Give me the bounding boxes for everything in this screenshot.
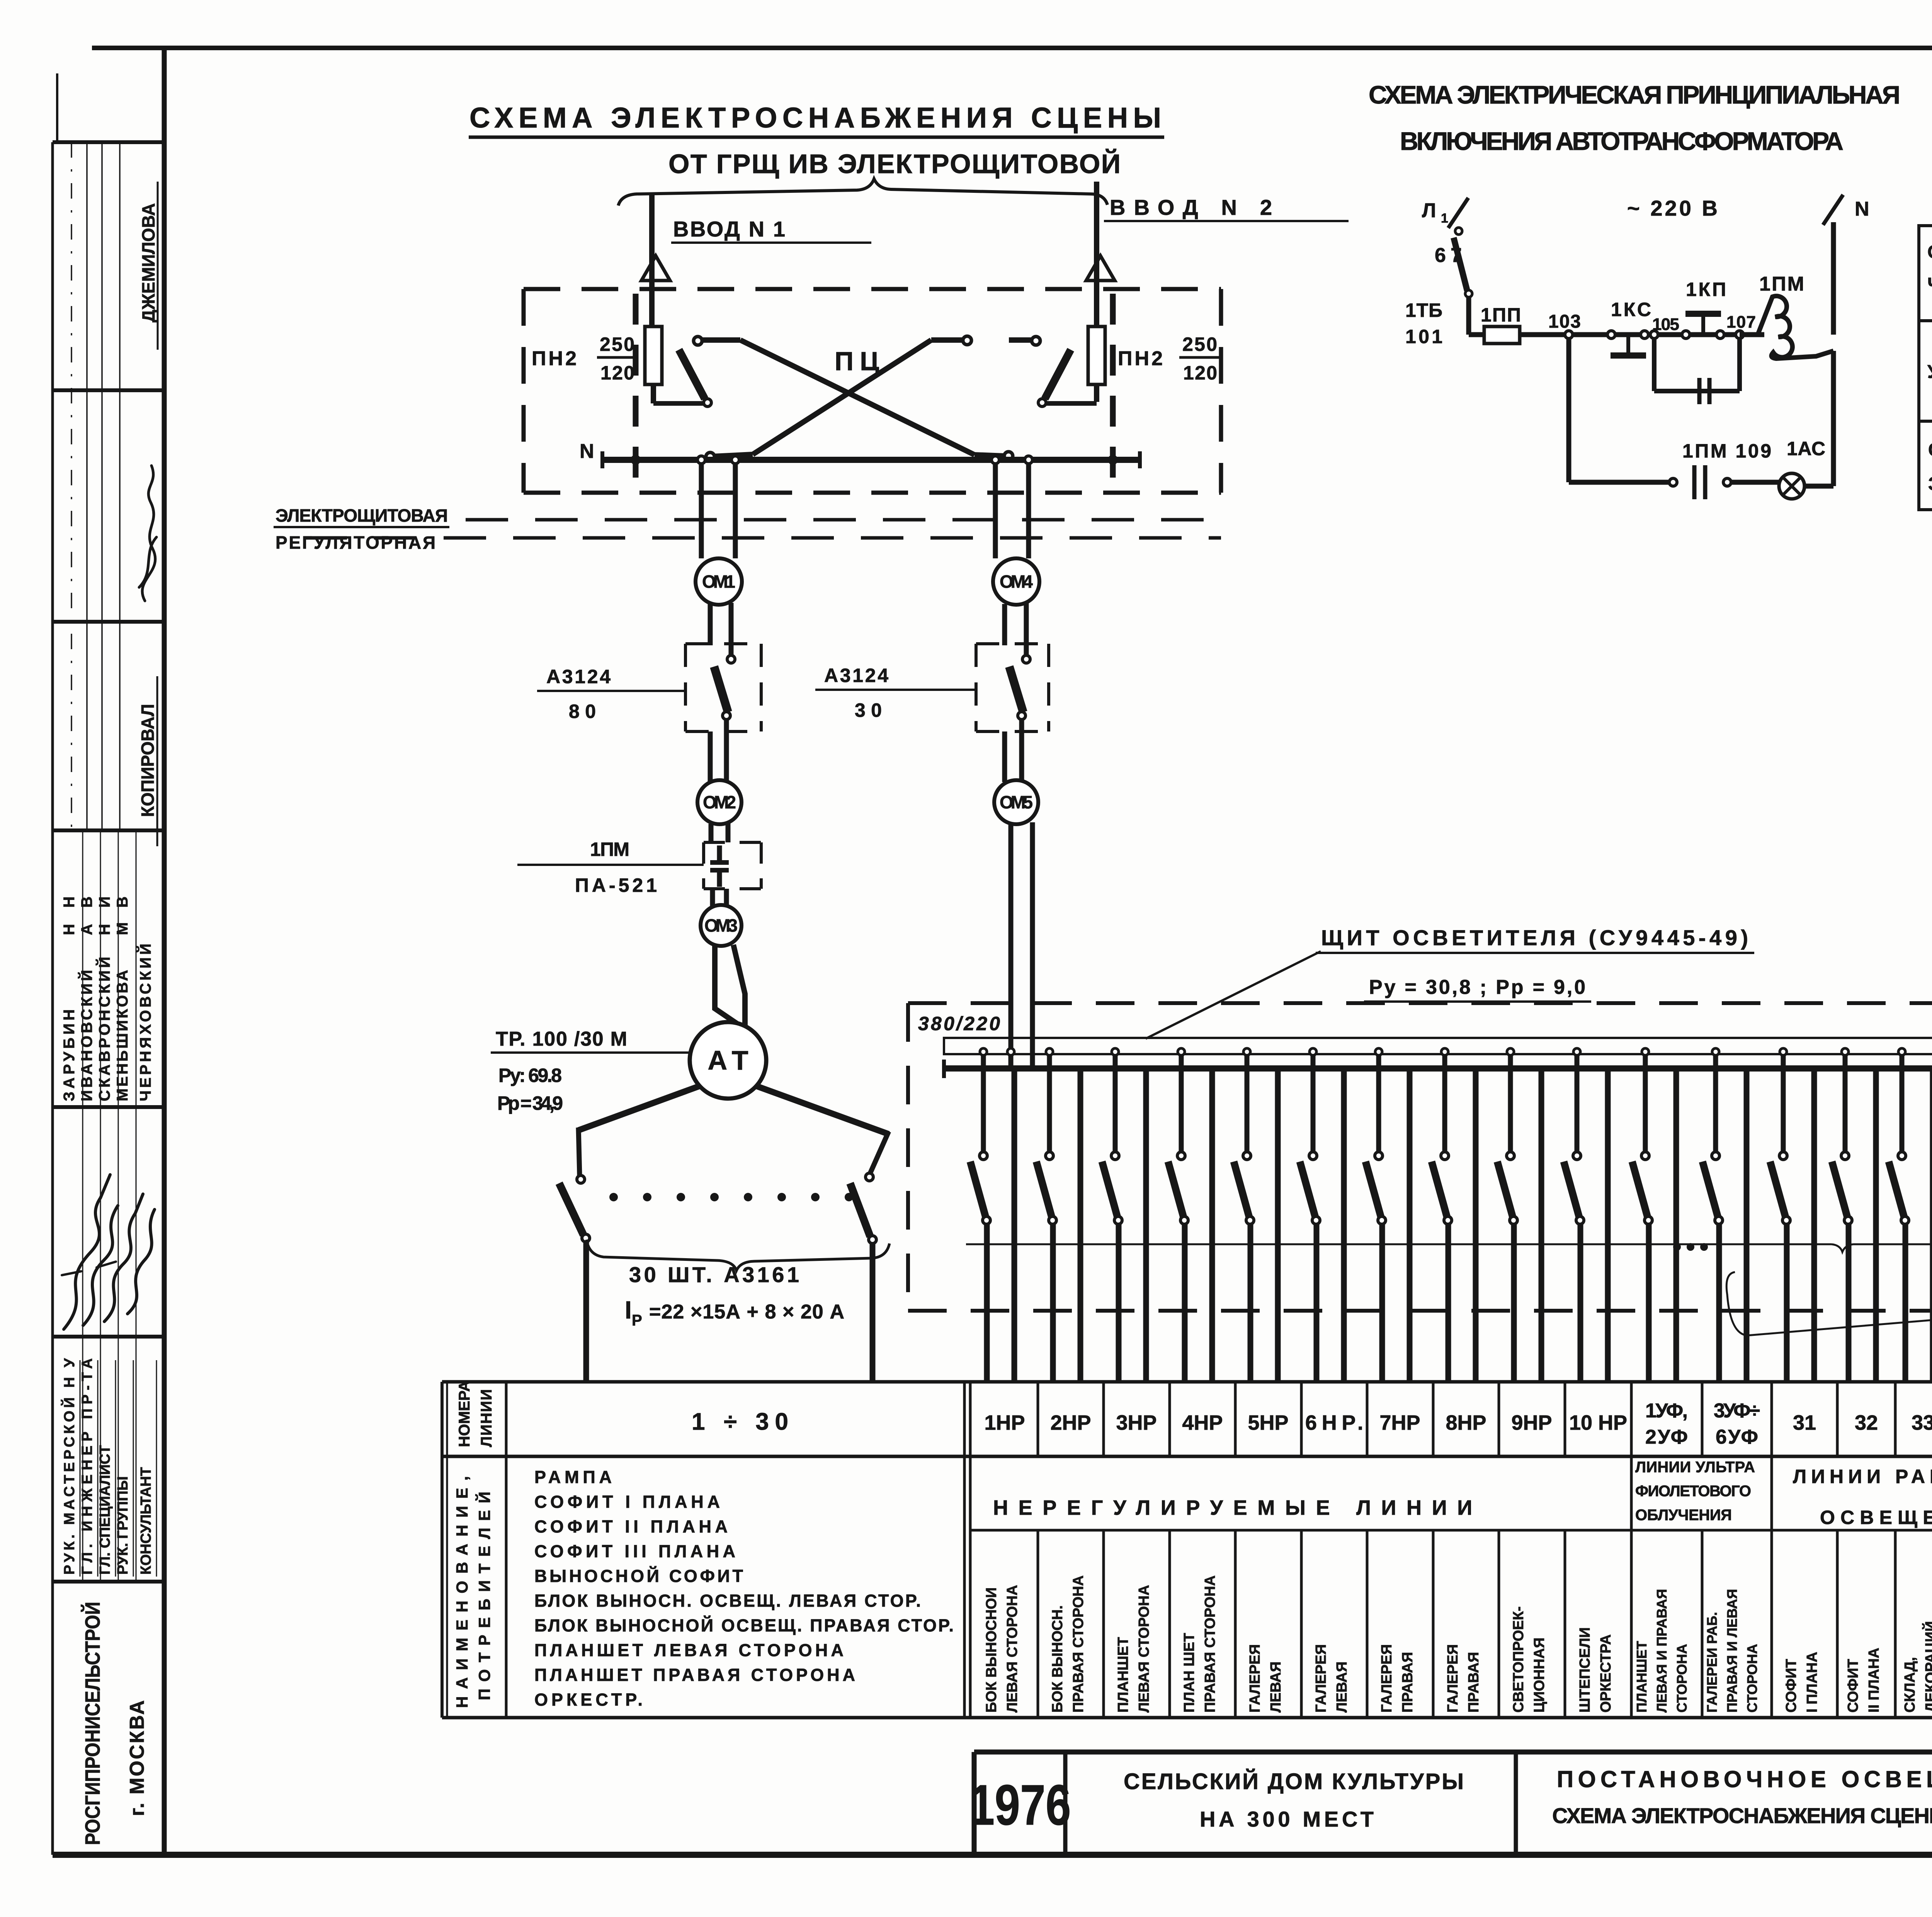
svg-text:СИГНАЛИ-: СИГНАЛИ- [1928,440,1932,460]
svg-text:31: 31 [1793,1411,1816,1434]
svg-text:СОФИТ I ПЛАНА: СОФИТ I ПЛАНА [534,1492,720,1512]
svg-text:ЛЕВАЯ СТОРОНА: ЛЕВАЯ СТОРОНА [1004,1585,1020,1713]
svg-text:ЛИНИИ: ЛИНИИ [478,1389,495,1447]
svg-text:ЛЕВАЯ СТОРОНА: ЛЕВАЯ СТОРОНА [1136,1585,1152,1713]
svg-text:СОФИТ: СОФИТ [1845,1659,1861,1713]
svg-text:БОК ВЫНОСНОИ: БОК ВЫНОСНОИ [983,1587,1000,1713]
svg-text:105: 105 [1652,315,1679,334]
svg-text:1ПМ: 1ПМ [1759,273,1804,295]
svg-text:1ТБ: 1ТБ [1405,299,1442,321]
svg-text:101: 101 [1405,326,1442,347]
svg-text:г. МОСКВА: г. МОСКВА [126,1700,148,1816]
svg-text:250: 250 [1182,333,1217,355]
svg-text:УПРАВЛЕНИЕ: УПРАВЛЕНИЕ [1927,362,1932,382]
svg-text:8НР: 8НР [1446,1411,1486,1434]
svg-text:107: 107 [1726,313,1756,332]
svg-text:ВВОД N 2: ВВОД N 2 [1110,195,1272,219]
svg-text:ПРАВАЯ И ЛЕВАЯ: ПРАВАЯ И ЛЕВАЯ [1724,1589,1740,1713]
svg-text:СЕЛЬСКИЙ ДОМ КУЛЬТУРЫ: СЕЛЬСКИЙ ДОМ КУЛЬТУРЫ [1124,1769,1464,1794]
svg-text:ДЕКОРАЦИЙ: ДЕКОРАЦИЙ [1922,1621,1932,1713]
svg-text:ДЖЕМИЛОВА: ДЖЕМИЛОВА [138,203,158,323]
svg-text:СХЕМА ЭЛЕКТРОСНАБЖЕНИЯ СЦЕНЫ: СХЕМА ЭЛЕКТРОСНАБЖЕНИЯ СЦЕНЫ [469,102,1161,134]
svg-text:А В: А В [78,896,95,935]
svg-text:А3124: А3124 [824,665,888,686]
svg-text:ТР. 100 /30 М: ТР. 100 /30 М [496,1028,627,1050]
svg-text:Л: Л [1422,199,1436,222]
svg-text:Р: Р [632,1312,642,1329]
svg-text:1КС: 1КС [1611,299,1651,320]
svg-text:ЛИНИИ УЛЬТРА: ЛИНИИ УЛЬТРА [1635,1459,1755,1476]
svg-text:НОМЕРА: НОМЕРА [456,1381,473,1447]
svg-text:ШТЕПСЕЛИ: ШТЕПСЕЛИ [1577,1627,1593,1713]
svg-text:ГАЛЕРЕЯ: ГАЛЕРЕЯ [1247,1644,1263,1713]
svg-text:ПРАВАЯ: ПРАВАЯ [1466,1652,1482,1713]
svg-text:1ПП: 1ПП [1481,304,1521,326]
svg-text:ВКЛЮЧЕНИЯ АВТОТРАНСФОРМАТОРА: ВКЛЮЧЕНИЯ АВТОТРАНСФОРМАТОРА [1400,127,1844,155]
svg-text:9НР: 9НР [1511,1411,1552,1434]
svg-text:1976: 1976 [969,1773,1071,1837]
svg-text:КОПИРОВАЛ: КОПИРОВАЛ [138,704,158,817]
svg-text:ФИОЛЕТОВОГО: ФИОЛЕТОВОГО [1635,1483,1751,1500]
svg-text:А3124: А3124 [546,666,611,687]
svg-text:РОСГИПРОНИСЕЛЬСТРОЙ: РОСГИПРОНИСЕЛЬСТРОЙ [81,1602,104,1845]
svg-text:СОФИТ: СОФИТ [1783,1659,1799,1713]
svg-text:N: N [1855,198,1869,220]
svg-text:ЗАЦИЯ: ЗАЦИЯ [1928,474,1932,494]
svg-text:МЕНЬШИКОВА: МЕНЬШИКОВА [114,970,131,1101]
svg-text:N: N [580,440,594,463]
svg-text:ПН2: ПН2 [532,347,577,370]
svg-text:ГАЛЕРЕЯ: ГАЛЕРЕЯ [1379,1644,1395,1713]
svg-text:ПЛАН ШЕТ: ПЛАН ШЕТ [1181,1633,1197,1713]
svg-text:М В: М В [114,896,131,935]
svg-text:ПН2: ПН2 [1118,347,1163,370]
svg-text:Ру: 69.8: Ру: 69.8 [498,1065,562,1086]
svg-text:СВЕТОПРОЕК-: СВЕТОПРОЕК- [1510,1606,1527,1713]
svg-text:7НР: 7НР [1379,1411,1420,1434]
svg-text:ОМ5: ОМ5 [1000,792,1033,812]
svg-text:СХЕМА ЭЛЕКТРИЧЕСКАЯ ПРИНЦИПИАЛ: СХЕМА ЭЛЕКТРИЧЕСКАЯ ПРИНЦИПИАЛЬНАЯ [1369,80,1900,109]
svg-text:10 НР: 10 НР [1569,1411,1627,1434]
svg-text:Рр = 34,9: Рр = 34,9 [497,1092,563,1114]
svg-text:ГАЛЕРЕИ РАБ.: ГАЛЕРЕИ РАБ. [1704,1612,1720,1713]
svg-text:ПЛАНШЕТ: ПЛАНШЕТ [1115,1637,1131,1713]
svg-text:1НР: 1НР [984,1411,1025,1434]
svg-text:КОНСУЛЬТАНТ: КОНСУЛЬТАНТ [138,1467,154,1575]
svg-text:ЭЛЕКТРОЩИТОВАЯ: ЭЛЕКТРОЩИТОВАЯ [276,505,448,526]
svg-text:32: 32 [1855,1411,1878,1434]
svg-text:2НР: 2НР [1050,1411,1091,1434]
svg-text:I: I [625,1296,632,1324]
svg-text:ПЛАНШЕТ: ПЛАНШЕТ [1634,1641,1650,1713]
svg-text:I ПЛАНА: I ПЛАНА [1804,1652,1820,1713]
svg-text:3УФ÷: 3УФ÷ [1714,1400,1760,1422]
svg-text:1УФ,: 1УФ, [1645,1400,1688,1422]
svg-text:ИВАНОВСКИЙ: ИВАНОВСКИЙ [78,970,95,1101]
svg-text:ОМ1: ОМ1 [702,572,735,592]
svg-text:ОБЩЕЕ ВКЛЮ-: ОБЩЕЕ ВКЛЮ- [1927,242,1932,262]
svg-text:СКАВРОНСКИЙ: СКАВРОНСКИЙ [95,957,113,1101]
svg-text:РУК. ГРУППЫ: РУК. ГРУППЫ [115,1476,131,1575]
svg-text:33: 33 [1912,1411,1932,1434]
svg-text:СХЕМА ЭЛЕКТРОСНАБЖЕНИЯ СЦЕНЫ: СХЕМА ЭЛЕКТРОСНАБЖЕНИЯ СЦЕНЫ [1552,1803,1932,1828]
svg-text:СТОРОНА: СТОРОНА [1674,1644,1690,1713]
svg-text:3НР: 3НР [1116,1411,1156,1434]
svg-text:Н И: Н И [96,896,113,935]
svg-text:5НР: 5НР [1248,1411,1288,1434]
svg-text:ГЛ. СПЕЦИАЛИСТ: ГЛ. СПЕЦИАЛИСТ [97,1445,113,1575]
svg-text:НА 300 МЕСТ: НА 300 МЕСТ [1200,1807,1374,1831]
svg-text:2УФ: 2УФ [1645,1426,1688,1448]
svg-text:6УФ: 6УФ [1716,1426,1758,1448]
svg-text:120: 120 [1183,362,1217,384]
svg-text:СТОРОНА: СТОРОНА [1744,1644,1760,1713]
svg-text:1: 1 [1441,211,1448,226]
svg-text:250: 250 [600,333,634,355]
svg-text:=22 ×15А + 8 × 20 А: =22 ×15А + 8 × 20 А [649,1301,844,1323]
svg-text:1КП: 1КП [1686,279,1726,300]
svg-text:120: 120 [600,362,634,384]
svg-text:ЛЕВАЯ: ЛЕВАЯ [1334,1662,1350,1713]
svg-text:4НР: 4НР [1182,1411,1223,1434]
svg-text:ЧЕНИЕ ЦЕПЕЙ: ЧЕНИЕ ЦЕПЕЙ [1927,274,1932,295]
svg-text:ЩИТ ОСВЕТИТЕЛЯ (СУ9445-49): ЩИТ ОСВЕТИТЕЛЯ (СУ9445-49) [1321,925,1748,950]
svg-text:ОМ2: ОМ2 [703,792,736,812]
svg-text:ЦИОННАЯ: ЦИОННАЯ [1531,1638,1548,1713]
svg-text:СКЛАД,: СКЛАД, [1902,1657,1918,1713]
svg-text:ОТ ГРЩ ИВ ЭЛЕКТРОЩИТОВОЙ: ОТ ГРЩ ИВ ЭЛЕКТРОЩИТОВОЙ [668,148,1121,179]
svg-text:РУК. МАСТЕРСКОЙ Н У: РУК. МАСТЕРСКОЙ Н У [60,1358,78,1575]
svg-text:БОК ВЫНОСН.: БОК ВЫНОСН. [1049,1605,1066,1713]
svg-text:ОМ3: ОМ3 [704,915,738,936]
svg-text:103: 103 [1548,311,1581,332]
svg-text:ПРАВАЯ: ПРАВАЯ [1400,1652,1416,1713]
svg-text:ГАЛЕРЕЯ: ГАЛЕРЕЯ [1445,1644,1461,1713]
svg-text:II ПЛАНА: II ПЛАНА [1866,1648,1882,1713]
svg-text:ЛЕВАЯ: ЛЕВАЯ [1268,1662,1284,1713]
svg-text:ЛЕВАЯ И ПРАВАЯ: ЛЕВАЯ И ПРАВАЯ [1654,1589,1670,1713]
svg-text:РЕГУЛЯТОРНАЯ: РЕГУЛЯТОРНАЯ [276,532,435,553]
svg-text:ПРАВАЯ СТОРОНА: ПРАВАЯ СТОРОНА [1202,1575,1218,1713]
svg-text:ГАЛЕРЕЯ: ГАЛЕРЕЯ [1313,1644,1329,1713]
svg-text:ОМ4: ОМ4 [1000,572,1033,592]
svg-text:1АС: 1АС [1787,438,1825,459]
svg-text:1ПМ: 1ПМ [590,839,629,860]
svg-text:ПРАВАЯ СТОРОНА: ПРАВАЯ СТОРОНА [1070,1575,1087,1713]
svg-text:ОБЛУЧЕНИЯ: ОБЛУЧЕНИЯ [1635,1507,1732,1524]
svg-text:Н Н: Н Н [61,896,78,935]
svg-text:ВВОД N 1: ВВОД N 1 [673,217,785,241]
svg-text:ОРКЕСТРА: ОРКЕСТРА [1598,1634,1614,1713]
svg-text:ВЫНОСНОЙ СОФИТ: ВЫНОСНОЙ СОФИТ [534,1566,743,1586]
